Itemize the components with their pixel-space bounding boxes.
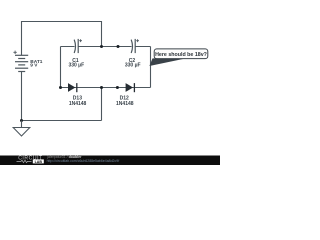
wire right vertical C2 to D12 xyxy=(150,47,152,88)
svg-text:330 µF: 330 µF xyxy=(68,63,84,69)
callout box "Here should be 18v?" xyxy=(154,49,208,59)
capacitor C1 xyxy=(74,39,78,53)
C1 plus sign xyxy=(79,39,82,42)
junction node diode mid xyxy=(100,86,103,89)
credit line user/title xyxy=(46,155,82,159)
diode D13 xyxy=(68,83,77,92)
capacitor C2 xyxy=(131,39,135,53)
svg-text:9 V: 9 V xyxy=(30,63,38,69)
callout tail xyxy=(149,58,186,66)
C2 label xyxy=(125,58,141,69)
wire top loop: battery + to node between C1/C2 xyxy=(22,22,102,56)
junction node probe dot top xyxy=(117,45,120,48)
wire mid vertical diode row to bottom xyxy=(101,88,103,121)
battery plus sign xyxy=(13,51,16,54)
credit line url xyxy=(47,159,120,163)
diode D12 xyxy=(126,83,135,92)
wire capacitor row y=46.4 xyxy=(61,46,151,48)
battery label BAT1 9V xyxy=(30,59,43,69)
battery BAT1 xyxy=(15,55,28,71)
circuitlab logo CIRCUIT xyxy=(18,155,43,161)
svg-text:Here should be 18v?: Here should be 18v? xyxy=(155,52,207,58)
svg-text:1N4148: 1N4148 xyxy=(116,101,134,107)
svg-text:330 µF: 330 µF xyxy=(125,63,141,69)
svg-text:1N4148: 1N4148 xyxy=(69,101,87,107)
svg-text:LAB: LAB xyxy=(35,160,43,164)
watermark bar xyxy=(0,156,220,166)
wire bottom: battery - to mid vertical xyxy=(22,72,102,121)
junction node battery bottom xyxy=(20,119,23,122)
D13 label xyxy=(69,96,87,107)
wire diode row y=87.6 xyxy=(61,87,151,89)
C2 plus sign xyxy=(136,39,139,42)
D12 label xyxy=(116,96,134,107)
circuitlab logo squiggle and LAB xyxy=(17,159,44,163)
C1 label xyxy=(68,58,84,69)
junction node diode probe xyxy=(116,86,119,89)
junction node left diode corner xyxy=(59,86,62,89)
junction node C1/C2 top xyxy=(100,45,103,48)
ground xyxy=(13,121,30,137)
wire left vertical C1 to D13 xyxy=(60,47,62,88)
svg-text:http://circuitlab.com/c6uh6288: http://circuitlab.com/c6uh6288e5ab6e4a8d… xyxy=(47,159,120,163)
